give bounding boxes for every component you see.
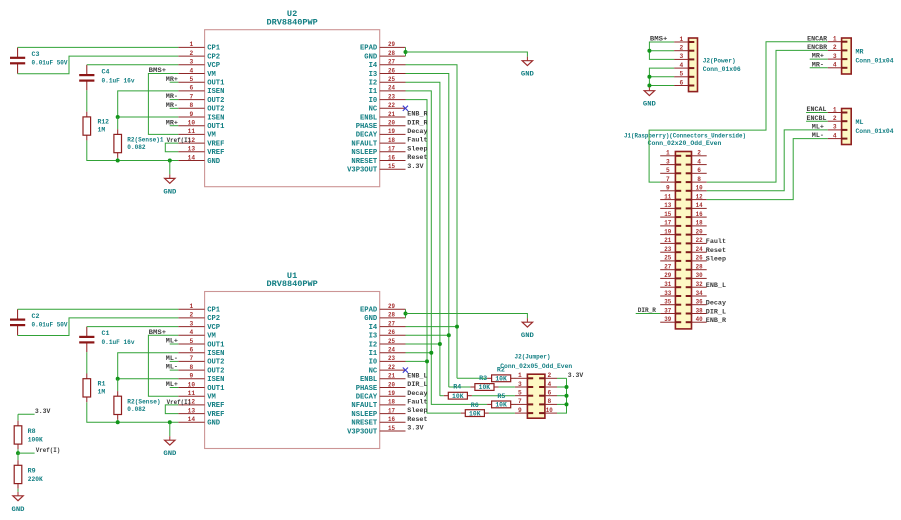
svg-text:4: 4 [833, 62, 837, 69]
svg-text:OUT2: OUT2 [207, 359, 225, 367]
junction R2-GND (U2) [116, 159, 120, 163]
svg-text:GND: GND [521, 71, 534, 78]
junction I2 bus (U1) [438, 342, 442, 346]
svg-text:11: 11 [188, 128, 196, 135]
wire C3 to U2 CP1 [18, 46, 179, 48]
junction J2 pin2 [647, 49, 651, 53]
svg-text:I0: I0 [369, 359, 378, 367]
net label Fault (U1) [407, 399, 427, 406]
net label Vref(I) (U1) [167, 399, 192, 406]
svg-text:10K: 10K [495, 402, 507, 409]
resistor R3 10K (jumper row3) [470, 375, 498, 391]
svg-text:20: 20 [696, 228, 703, 235]
wire C2 to U1 CP1 [18, 308, 179, 310]
svg-text:ENBL: ENBL [360, 376, 378, 384]
wire U1 I1 net pin24 [406, 352, 432, 354]
svg-text:3: 3 [190, 59, 194, 66]
svg-text:DRV8840PWP: DRV8840PWP [266, 279, 317, 289]
svg-text:6: 6 [679, 79, 683, 86]
net label Sleep (U1) [407, 407, 427, 414]
svg-text:MR+: MR+ [166, 76, 178, 83]
wire U1 I4 net pin27 [406, 326, 458, 328]
svg-text:NRESET: NRESET [351, 420, 377, 428]
resistor R2(Sense) 0.082 (U1) [114, 391, 161, 420]
svg-text:DIR_R: DIR_R [407, 119, 427, 126]
svg-text:VM: VM [207, 71, 216, 79]
svg-text:24: 24 [696, 246, 703, 253]
wire I1 to R5 10K [431, 403, 487, 405]
net label ML- pin8 (U1) [166, 364, 179, 371]
svg-text:38: 38 [696, 307, 703, 314]
svg-text:VREF: VREF [207, 411, 225, 419]
svg-text:I4: I4 [369, 324, 378, 332]
svg-text:3: 3 [833, 124, 837, 131]
wire ML- to J1 pin12 [707, 139, 828, 200]
svg-text:I2: I2 [369, 341, 378, 349]
svg-text:15: 15 [388, 425, 395, 432]
svg-text:3.3V: 3.3V [568, 372, 583, 379]
junction J2 pin8 [565, 402, 569, 406]
svg-text:MR: MR [856, 48, 864, 55]
junction GND drop (U2) [168, 159, 172, 163]
svg-text:2: 2 [190, 50, 194, 57]
net label ENCAR [807, 35, 827, 42]
svg-text:1: 1 [190, 41, 194, 48]
svg-text:21: 21 [388, 111, 395, 118]
svg-text:NSLEEP: NSLEEP [351, 411, 377, 419]
wire U2 GND to ground [406, 52, 528, 61]
connector MR Conn_01x04 [828, 36, 894, 75]
net label ENCBL [806, 115, 828, 122]
svg-text:ISEN: ISEN [207, 376, 225, 384]
connector ML Conn_01x04 [828, 106, 894, 144]
svg-text:DIR_R: DIR_R [638, 307, 656, 314]
svg-text:4: 4 [679, 62, 683, 69]
svg-text:R6: R6 [471, 402, 479, 409]
wire C3 to U2 CP2 [18, 56, 179, 74]
svg-text:Sleep: Sleep [706, 256, 726, 263]
svg-text:ENB_L: ENB_L [706, 282, 726, 289]
power label 3.3V (divider) [18, 408, 50, 415]
svg-text:R8: R8 [28, 428, 36, 435]
wire U1 I0 net pin23 [406, 360, 428, 362]
svg-text:2: 2 [190, 312, 194, 319]
junction J2 pin4 [565, 385, 569, 389]
svg-text:12: 12 [696, 193, 703, 200]
svg-text:ENBL: ENBL [360, 114, 378, 122]
svg-text:10: 10 [188, 381, 196, 388]
connector J2 (Power) Conn_01x06 [674, 36, 741, 92]
svg-text:CP1: CP1 [207, 45, 220, 53]
svg-text:1: 1 [833, 106, 837, 113]
wire J2 pins 4-6 to ground [649, 68, 674, 91]
svg-text:29: 29 [664, 272, 671, 279]
svg-text:10K: 10K [495, 376, 507, 383]
svg-text:ISEN: ISEN [207, 350, 225, 358]
svg-text:V3P3OUT: V3P3OUT [347, 167, 377, 175]
svg-text:Fault: Fault [407, 399, 427, 406]
ground under U1 [163, 440, 176, 457]
wire R6 to J2 pin9 [489, 412, 515, 414]
wire J2 pin5 [649, 76, 674, 78]
ground right of U2 [521, 61, 534, 78]
wire node to R2 sense [117, 117, 119, 129]
net label DIR_L (J1 pin 38) [706, 308, 726, 315]
junction I3 bus (U1) [447, 333, 451, 337]
svg-text:EPAD: EPAD [360, 45, 378, 53]
wire BMS+ J2 pins 1-3 [649, 42, 674, 59]
wire R2 to GND rail (U2) [117, 158, 119, 161]
svg-text:5: 5 [666, 167, 670, 174]
svg-text:OUT1: OUT1 [207, 341, 225, 349]
capacitor C4 [79, 65, 134, 91]
wire ENCAR to J1 pin7 [649, 42, 828, 182]
svg-text:24: 24 [388, 85, 395, 92]
svg-text:18: 18 [696, 220, 703, 227]
svg-text:33: 33 [664, 290, 671, 297]
svg-text:1: 1 [518, 372, 522, 379]
svg-text:PHASE: PHASE [356, 123, 378, 131]
svg-text:4: 4 [697, 158, 701, 165]
svg-text:16: 16 [388, 416, 395, 423]
wire U2 EPAD-GND tie [405, 47, 407, 56]
wire U2 I2 net pin25 [406, 82, 440, 396]
svg-text:34: 34 [696, 290, 703, 297]
junction EPAD-GND (U1) [404, 312, 408, 316]
svg-text:4: 4 [833, 132, 837, 139]
net label DIR_R (J1 pin 37) [636, 307, 661, 314]
capacitor C3 [10, 47, 68, 73]
svg-text:Reset: Reset [706, 247, 726, 254]
wire R2 to J2 pin1 [514, 377, 516, 379]
svg-text:25: 25 [388, 338, 395, 345]
svg-text:35: 35 [664, 299, 671, 306]
net label MR- (conn) [810, 61, 828, 68]
svg-text:OUT2: OUT2 [207, 367, 225, 375]
capacitor C1 [79, 327, 134, 353]
wire BMS+ to U2 VM pins [148, 74, 178, 135]
wire J2 jumper 3.3V bus [557, 378, 567, 413]
svg-text:8: 8 [190, 364, 194, 371]
svg-text:15: 15 [664, 211, 671, 218]
svg-text:21: 21 [388, 373, 395, 380]
svg-text:Decay: Decay [407, 390, 427, 397]
svg-text:Sleep: Sleep [407, 145, 427, 152]
svg-text:VREF: VREF [207, 149, 225, 157]
svg-text:13: 13 [188, 407, 196, 414]
svg-text:2: 2 [697, 150, 701, 157]
net label BMS+ (U1) [149, 329, 167, 336]
net label Sleep (U2) [407, 145, 427, 152]
svg-text:MR-: MR- [166, 93, 178, 100]
svg-text:I4: I4 [369, 62, 378, 70]
wire U1 I3 net pin26 [406, 334, 449, 336]
svg-text:3.3V: 3.3V [35, 408, 50, 415]
svg-text:VM: VM [207, 394, 216, 402]
svg-text:GND: GND [643, 101, 656, 108]
svg-text:9: 9 [518, 407, 522, 414]
svg-text:17: 17 [388, 407, 395, 414]
svg-text:OUT1: OUT1 [207, 123, 225, 131]
net label Vref(I) (U2) [167, 137, 192, 144]
wire R9 to ground [17, 489, 19, 496]
net label ML+ (conn) [812, 124, 824, 131]
net label Fault (J1 pin 22) [706, 238, 726, 245]
svg-text:16: 16 [388, 154, 395, 161]
svg-text:NC: NC [369, 106, 378, 114]
svg-text:16: 16 [696, 211, 703, 218]
junction R2-GND (U1) [116, 420, 120, 424]
svg-text:26: 26 [388, 329, 395, 336]
wire C1 to R1 [86, 352, 88, 373]
svg-text:R3: R3 [479, 375, 487, 382]
svg-text:R4: R4 [453, 383, 461, 390]
svg-text:1: 1 [679, 36, 683, 43]
svg-text:7: 7 [190, 93, 194, 100]
wire to GND symbol (U1) [169, 422, 171, 440]
wire BMS+ to U1 VM pins [148, 335, 178, 396]
svg-text:GND: GND [163, 450, 176, 457]
svg-text:19: 19 [388, 128, 395, 135]
svg-text:27: 27 [388, 59, 395, 66]
svg-text:1: 1 [666, 150, 670, 157]
wire R3 to J2 pin3 [499, 386, 515, 388]
wire J2 pin2 [649, 50, 674, 52]
ground under U2 [163, 178, 176, 195]
svg-text:CP2: CP2 [207, 53, 220, 61]
svg-text:GND: GND [207, 420, 220, 428]
svg-text:J1(Raspberry)(Connectors_Under: J1(Raspberry)(Connectors_Underside) [624, 133, 746, 140]
svg-text:Decay: Decay [706, 300, 726, 307]
svg-text:C2: C2 [32, 313, 40, 320]
svg-text:NRESET: NRESET [351, 158, 377, 166]
capacitor C2 [10, 309, 68, 335]
svg-text:3: 3 [518, 381, 522, 388]
wire I2 to R4 10K [440, 395, 444, 397]
svg-text:1: 1 [190, 303, 194, 310]
svg-text:ENCBL: ENCBL [807, 115, 827, 122]
svg-text:1M: 1M [98, 127, 106, 134]
svg-text:I3: I3 [369, 71, 378, 79]
svg-text:VCP: VCP [207, 324, 220, 332]
svg-text:MR+: MR+ [166, 119, 178, 126]
net label ENB_R (U2) [407, 111, 427, 118]
wire node to U2 ISEN pin9 [118, 116, 179, 118]
junction I4 bus (U1) [455, 325, 459, 329]
svg-text:40: 40 [696, 316, 703, 323]
svg-text:CP1: CP1 [207, 307, 220, 315]
wire R2 to GND rail (U1) [117, 420, 119, 423]
svg-text:28: 28 [388, 50, 395, 57]
svg-text:NFAULT: NFAULT [351, 402, 377, 410]
svg-text:4: 4 [190, 67, 194, 74]
svg-text:23: 23 [388, 93, 395, 100]
svg-text:8: 8 [547, 398, 551, 405]
wire U2 ISEN pin6 to node [118, 91, 179, 117]
svg-text:ENB_R: ENB_R [407, 111, 427, 118]
svg-text:Conn_01x06: Conn_01x06 [703, 66, 741, 73]
svg-text:3: 3 [833, 53, 837, 60]
svg-text:MR+: MR+ [812, 53, 824, 60]
svg-text:9: 9 [190, 111, 194, 118]
wire U2 I1 net pin24 [406, 91, 432, 405]
svg-text:VM: VM [207, 333, 216, 341]
svg-text:23: 23 [664, 246, 671, 253]
svg-text:3: 3 [679, 53, 683, 60]
net label ML- (conn) [812, 132, 824, 139]
svg-text:I1: I1 [369, 350, 378, 358]
svg-text:GND: GND [364, 53, 377, 61]
svg-text:2: 2 [547, 372, 551, 379]
svg-text:PHASE: PHASE [356, 385, 378, 393]
ground under R9 [12, 496, 25, 513]
wire R1 to GND rail [87, 402, 179, 422]
svg-text:OUT1: OUT1 [207, 80, 225, 88]
svg-text:3.3V: 3.3V [407, 163, 423, 170]
no-connect X U2 pin22 [403, 106, 408, 111]
wire J2 pin6 [649, 85, 674, 87]
wire U1 ISEN pin6 to node [118, 353, 179, 379]
resistor R12 1M [83, 112, 109, 141]
svg-text:14: 14 [188, 416, 196, 423]
svg-text:22: 22 [388, 364, 395, 371]
svg-text:Fault: Fault [706, 238, 726, 245]
svg-text:OUT1: OUT1 [207, 385, 225, 393]
svg-text:10K: 10K [452, 393, 464, 400]
svg-text:DECAY: DECAY [356, 132, 378, 140]
junction EPAD-GND (U2) [404, 50, 408, 54]
net label ENB_R (J1 pin 40) [706, 317, 726, 324]
wire to GND symbol (U2) [169, 161, 171, 179]
svg-text:3: 3 [190, 320, 194, 327]
svg-text:32: 32 [696, 281, 703, 288]
net label MR+ pin5 (U2) [166, 76, 179, 83]
net label BMS+ (U2) [149, 67, 167, 74]
svg-text:14: 14 [696, 202, 703, 209]
svg-text:26: 26 [696, 255, 703, 262]
svg-text:CP2: CP2 [207, 315, 220, 323]
svg-text:10K: 10K [469, 410, 481, 417]
svg-text:28: 28 [696, 264, 703, 271]
svg-text:29: 29 [388, 303, 395, 310]
svg-text:ENCAL: ENCAL [807, 106, 827, 113]
svg-text:7: 7 [190, 355, 194, 362]
svg-text:27: 27 [664, 264, 671, 271]
svg-text:Conn_01x04: Conn_01x04 [856, 57, 894, 64]
net label ENCBR [807, 44, 827, 51]
svg-text:Conn_02x05_Odd_Even: Conn_02x05_Odd_Even [500, 363, 572, 370]
wire C4 to R12 [86, 90, 88, 111]
svg-text:14: 14 [188, 154, 196, 161]
svg-text:C4: C4 [102, 68, 110, 75]
svg-text:25: 25 [388, 76, 395, 83]
wire U2 I4 net pin27 [406, 65, 458, 379]
wire U2 I3 net pin26 [406, 74, 449, 388]
svg-text:17: 17 [664, 220, 671, 227]
net label DIR_R (U2) [407, 119, 427, 126]
svg-text:20: 20 [388, 120, 395, 127]
wire node to R2 sense (U1) [117, 379, 119, 391]
svg-text:Reset: Reset [407, 154, 427, 161]
svg-text:BMS+: BMS+ [149, 67, 167, 74]
svg-text:10: 10 [188, 120, 196, 127]
svg-text:C3: C3 [32, 51, 40, 58]
svg-text:10: 10 [696, 185, 703, 192]
svg-text:100K: 100K [28, 436, 43, 443]
svg-text:ML-: ML- [166, 364, 178, 371]
svg-text:18: 18 [388, 137, 395, 144]
svg-text:R2(Sense)1: R2(Sense)1 [127, 137, 163, 144]
wire ENCBR to J1 pin8 [707, 50, 828, 182]
svg-text:1M: 1M [98, 389, 106, 396]
svg-text:R2(Sense): R2(Sense) [127, 398, 160, 405]
power label 3.3V (jumper) [568, 372, 583, 379]
svg-text:13: 13 [664, 202, 671, 209]
svg-text:ISEN: ISEN [207, 114, 225, 122]
svg-text:NFAULT: NFAULT [351, 140, 377, 148]
svg-text:4: 4 [547, 381, 551, 388]
svg-text:R1: R1 [98, 380, 106, 387]
wire R5 to J2 pin7 [514, 403, 516, 405]
net label Sleep (J1 pin 26) [706, 256, 726, 263]
svg-text:DRV8840PWP: DRV8840PWP [266, 17, 317, 27]
svg-text:18: 18 [388, 399, 395, 406]
net label ENB_L (U1) [407, 372, 427, 379]
net label Decay (U1) [407, 390, 427, 397]
svg-text:5: 5 [679, 71, 683, 78]
svg-text:29: 29 [388, 41, 395, 48]
junction J2 pin6 [647, 84, 651, 88]
svg-text:NSLEEP: NSLEEP [351, 149, 377, 157]
svg-text:2: 2 [833, 115, 837, 122]
wire I3 to R3 10K [449, 386, 471, 388]
svg-text:V3P3OUT: V3P3OUT [347, 428, 377, 436]
svg-text:GND: GND [163, 188, 176, 195]
IC U2 DRV8840PWP [178, 9, 405, 187]
svg-text:VM: VM [207, 132, 216, 140]
net label Reset (U1) [407, 416, 427, 423]
resistor R8 100K [14, 421, 43, 450]
net label MR+ pin10 (U2) [166, 119, 179, 126]
net label ENCAL [806, 106, 828, 113]
svg-text:GND: GND [12, 506, 25, 513]
wire node to U1 ISEN pin9 [118, 378, 179, 380]
junction I1 bus (U1) [429, 351, 433, 355]
svg-text:8: 8 [190, 102, 194, 109]
svg-text:OUT2: OUT2 [207, 97, 225, 105]
wire I4 to R2 10K [457, 377, 487, 379]
svg-text:11: 11 [188, 390, 196, 397]
wire ML+ to J1 pin10 [707, 130, 828, 191]
connector J2 (Jumper) Conn_02x05_Odd_Even [500, 354, 572, 419]
svg-text:DECAY: DECAY [356, 394, 378, 402]
svg-text:DIR_L: DIR_L [407, 381, 427, 388]
wire C2 to U1 CP2 [18, 318, 179, 336]
svg-text:VCP: VCP [207, 62, 220, 70]
wire I0 to R6 10K [427, 412, 461, 414]
svg-text:5: 5 [518, 390, 522, 397]
svg-text:MR-: MR- [166, 102, 178, 109]
svg-text:7: 7 [518, 398, 522, 405]
svg-text:19: 19 [664, 228, 671, 235]
svg-text:17: 17 [388, 146, 395, 153]
svg-text:GND: GND [364, 315, 377, 323]
svg-text:Vref(I): Vref(I) [167, 137, 192, 144]
junction Vref node [16, 451, 20, 455]
svg-text:9: 9 [666, 185, 670, 192]
net label 3.3V (U2) [407, 163, 423, 170]
resistor R4 10K (jumper row5) [444, 383, 472, 400]
